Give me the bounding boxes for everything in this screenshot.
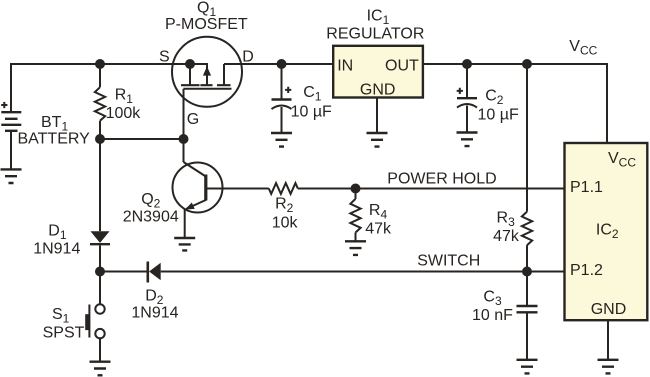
resistor R2: [269, 183, 298, 194]
wire battery negative to ground: [10, 132, 12, 170]
svg-text:SWITCH: SWITCH: [417, 253, 480, 270]
svg-text:IC1: IC1: [367, 8, 390, 28]
svg-text:10k: 10k: [272, 215, 299, 232]
ground Q2 emitter: [174, 238, 195, 250]
svg-text:GND: GND: [360, 82, 396, 99]
battery plus sign: [1, 102, 7, 108]
IC1 regulator box: [333, 46, 423, 98]
battery BT1: [1, 112, 21, 131]
Q1 channel contact bars: [181, 84, 231, 86]
svg-text:R1: R1: [115, 86, 134, 106]
wire battery positive to top rail to MOSFET source: [11, 64, 190, 111]
svg-text:G: G: [187, 111, 199, 128]
svg-text:P-MOSFET: P-MOSFET: [165, 16, 248, 33]
ground battery: [1, 169, 22, 183]
svg-text:S1: S1: [52, 306, 70, 326]
svg-text:100k: 100k: [106, 105, 142, 122]
node dot C3/R3 on switch line: [522, 267, 532, 277]
ground R4: [345, 241, 366, 255]
node dot C2: [462, 59, 472, 69]
switch S1 SPST: [85, 272, 105, 362]
svg-text:P1.1: P1.1: [570, 179, 603, 196]
svg-text:C3: C3: [483, 288, 502, 308]
node dot D1/S1/D2: [95, 267, 105, 277]
transistor Q1 P-MOSFET circle: [172, 37, 242, 107]
wire R2 to IC2 P1.1 (POWER HOLD): [298, 188, 565, 190]
ground C2: [457, 133, 478, 147]
svg-text:OUT: OUT: [385, 57, 419, 74]
node dot R3 top: [522, 59, 532, 69]
wire S1 node to D2: [100, 271, 147, 273]
node dot gate / Q2 collector: [179, 134, 189, 144]
svg-text:47k: 47k: [493, 228, 520, 245]
svg-text:VCC: VCC: [569, 38, 597, 58]
capacitor C3: [517, 272, 538, 360]
svg-text:10 nF: 10 nF: [472, 307, 513, 324]
Q1 drain stub: [223, 64, 225, 85]
ground C1: [271, 133, 292, 147]
svg-text:R4: R4: [369, 202, 388, 222]
capacitor C1: [272, 64, 292, 133]
ground IC1: [367, 133, 388, 147]
wire D2 to IC2 P1.2 (SWITCH): [161, 271, 565, 273]
svg-text:47k: 47k: [365, 220, 392, 237]
svg-text:2N3904: 2N3904: [123, 209, 179, 226]
svg-text:P1.2: P1.2: [570, 262, 603, 279]
svg-text:IN: IN: [337, 57, 353, 74]
Q1 source dot: [185, 59, 195, 69]
resistor R4: [350, 189, 360, 242]
svg-text:POWER HOLD: POWER HOLD: [387, 171, 496, 188]
svg-text:1N914: 1N914: [33, 241, 80, 258]
wire IC1 OUT to VCC corner down to IC2 VCC pin: [423, 64, 607, 143]
node dot C1: [277, 59, 287, 69]
svg-text:R3: R3: [497, 209, 516, 229]
ground IC2: [598, 360, 619, 374]
wire Q1 gate down to gate node: [183, 89, 185, 139]
svg-text:C2: C2: [485, 88, 504, 108]
transistor Q2 2N3904: [173, 139, 269, 238]
resistor R1: [95, 64, 105, 139]
svg-text:BATTERY: BATTERY: [18, 131, 91, 148]
IC2 box: [565, 143, 648, 320]
wire MOSFET drain to IC1 IN: [224, 63, 333, 65]
C1 plus sign: [285, 87, 291, 93]
wire IC2 GND to ground: [607, 320, 609, 360]
wire IC1 GND to ground: [376, 98, 378, 134]
node dot R4 top: [351, 184, 361, 194]
ground S1: [90, 362, 111, 376]
diode D2: [148, 262, 161, 283]
node dot R1 top: [95, 59, 105, 69]
svg-text:S: S: [159, 49, 170, 66]
svg-text:D: D: [242, 49, 254, 66]
capacitor C2: [457, 64, 477, 133]
svg-text:Q2: Q2: [141, 191, 160, 211]
diode D1: [90, 139, 110, 272]
Q1 substrate arrow and body-source tie: [190, 64, 211, 85]
node dot R1 bottom: [95, 134, 105, 144]
svg-text:REGULATOR: REGULATOR: [326, 26, 424, 43]
svg-text:SPST: SPST: [43, 325, 85, 342]
ground C3: [517, 360, 538, 374]
svg-text:GND: GND: [591, 301, 627, 318]
Q1 source stub: [189, 64, 191, 85]
svg-text:10 µF: 10 µF: [291, 104, 332, 121]
C2 plus sign: [457, 88, 463, 94]
wire gate rail node to node: [100, 138, 184, 140]
svg-text:R2: R2: [275, 196, 294, 216]
Q1 gate bar: [184, 88, 232, 90]
svg-text:10 µF: 10 µF: [478, 106, 519, 123]
svg-text:D1: D1: [48, 222, 67, 242]
svg-text:1N914: 1N914: [131, 305, 178, 322]
resistor R3: [522, 64, 532, 272]
svg-text:C1: C1: [303, 84, 322, 104]
